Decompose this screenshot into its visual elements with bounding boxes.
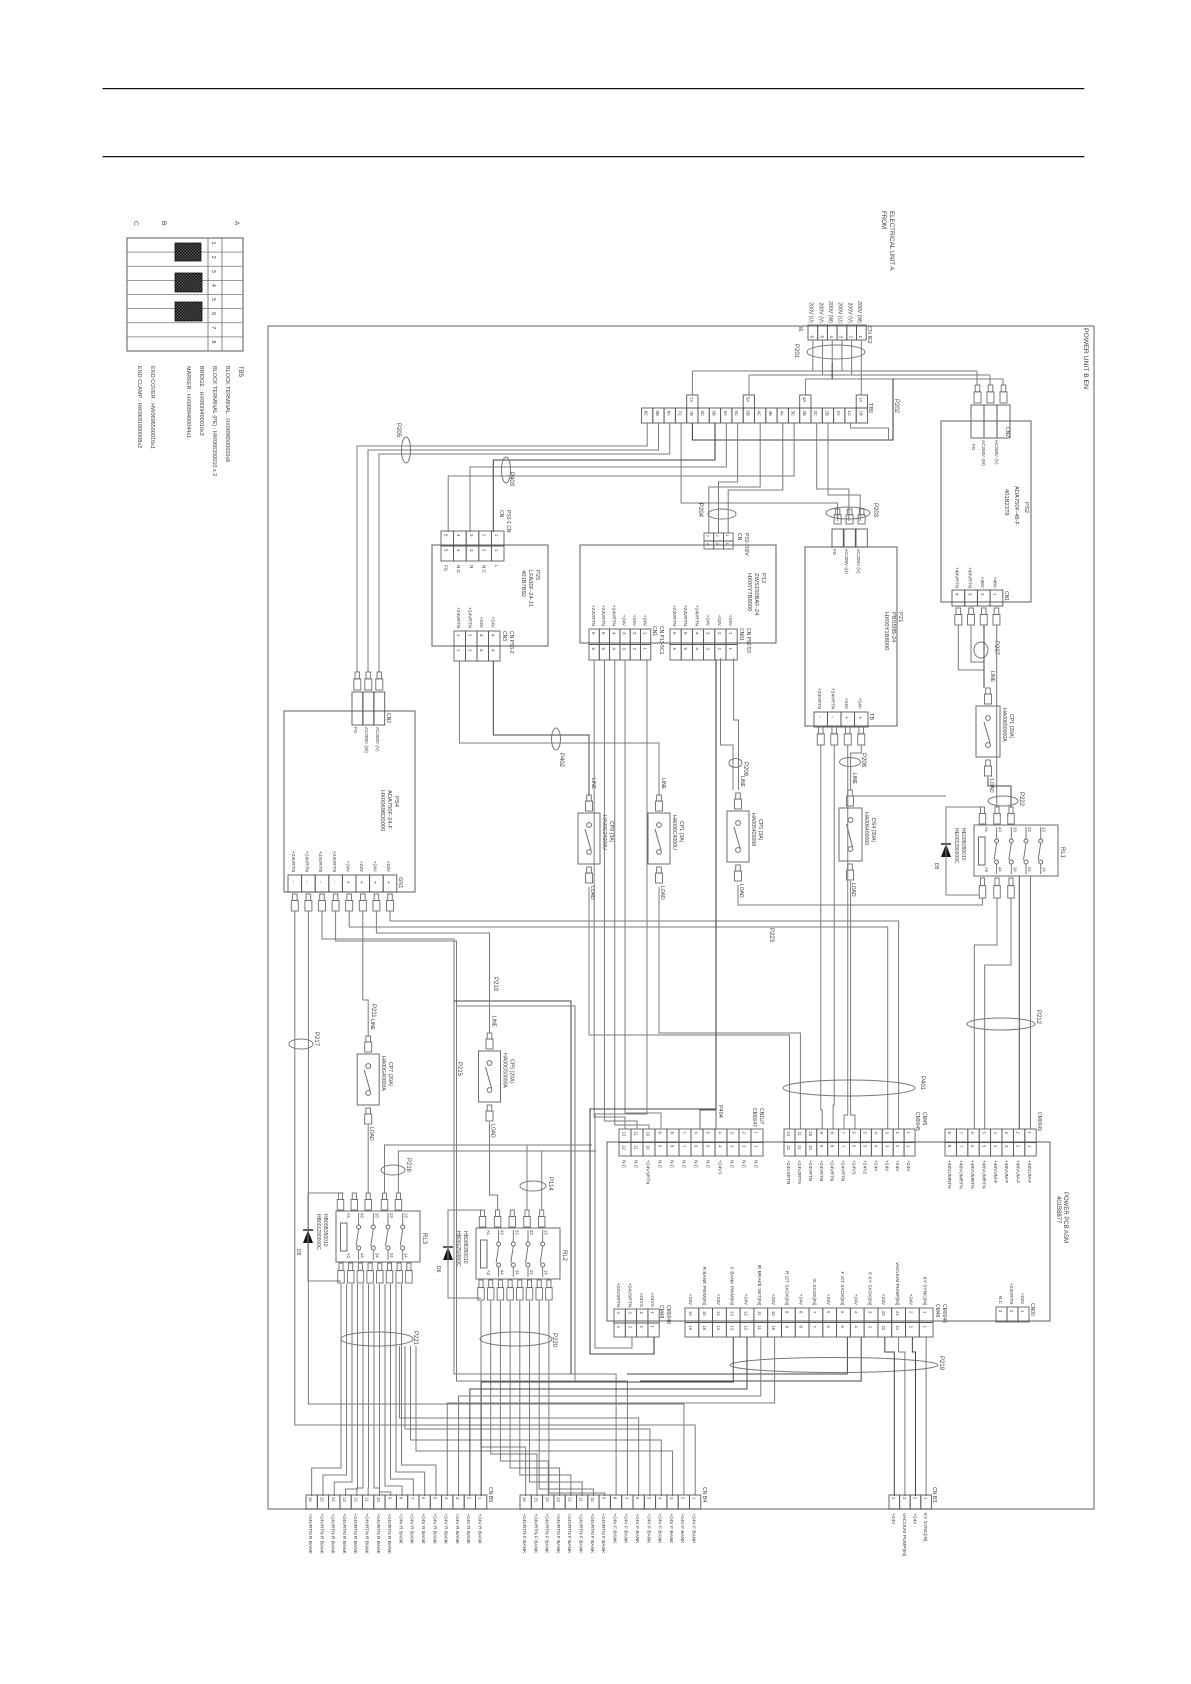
svg-text:9: 9 (657, 1145, 662, 1148)
svg-text:LINE: LINE (491, 1016, 497, 1028)
svg-text:+24V: +24V (883, 1160, 889, 1172)
svg-text:6: 6 (826, 1311, 831, 1314)
svg-text:+24VRTN: +24VRTN (610, 605, 616, 627)
svg-text:P217: P217 (313, 1032, 319, 1047)
svg-text:+24VRTN: +24VRTN (693, 605, 699, 627)
svg-text:8: 8 (669, 1145, 674, 1148)
svg-text:8: 8 (947, 1145, 952, 1148)
svg-text:2: 2 (481, 534, 486, 537)
svg-text:P219: P219 (938, 1356, 944, 1371)
svg-text:12: 12 (743, 1326, 748, 1331)
svg-text:8C: 8C (644, 411, 649, 417)
svg-text:33: 33 (1012, 827, 1017, 832)
svg-text:5: 5 (601, 648, 606, 651)
svg-text:+48VUM-F: +48VUM-F (992, 1160, 998, 1183)
svg-text:N.C: N.C (704, 1160, 710, 1169)
svg-text:14: 14 (331, 1497, 336, 1502)
svg-text:HA00G50000A: HA00G50000A (502, 1053, 508, 1088)
svg-text:P207: P207 (993, 641, 999, 656)
svg-text:HA006400000: HA006400000 (863, 812, 869, 845)
svg-text:+48V: +48V (992, 577, 998, 589)
svg-text:+24V R BANK: +24V R BANK (465, 1514, 471, 1545)
svg-text:-: - (317, 881, 323, 883)
svg-text:24: 24 (1027, 867, 1032, 872)
svg-text:+24VRTN: +24VRTN (818, 1160, 824, 1182)
svg-text:8: 8 (210, 340, 216, 343)
svg-text:15: 15 (320, 1497, 325, 1502)
svg-text:4: 4 (694, 648, 699, 651)
svg-text:+24VSRTN: +24VSRTN (627, 1283, 633, 1308)
svg-text:4: 4 (873, 1145, 878, 1148)
svg-text:1: 1 (650, 1312, 655, 1315)
svg-text:3A: 3A (802, 397, 807, 402)
svg-text:10: 10 (771, 1326, 776, 1331)
svg-text:6: 6 (852, 1132, 857, 1135)
svg-text:10: 10 (808, 1145, 813, 1150)
svg-text:+: + (344, 881, 350, 884)
svg-text:3: 3 (210, 270, 216, 273)
svg-text:+24VRTN: +24VRTN (455, 607, 461, 629)
svg-text:4: 4 (717, 1145, 722, 1148)
svg-text:+24V: +24V (385, 861, 391, 873)
svg-text:12: 12 (621, 1132, 626, 1137)
svg-text:7C: 7C (678, 411, 683, 417)
svg-text:8A: 8A (666, 411, 671, 416)
svg-text:5: 5 (444, 534, 449, 537)
svg-text:5: 5 (683, 632, 688, 635)
svg-text:CP1 (20A): CP1 (20A) (1008, 714, 1014, 738)
svg-text:P223: P223 (768, 928, 774, 943)
svg-text:CN: CN (736, 533, 742, 541)
svg-text:401B8877: 401B8877 (1055, 1196, 1061, 1224)
svg-text:R IZT SXOK[IN]: R IZT SXOK[IN] (784, 1271, 790, 1305)
svg-text:4: 4 (694, 632, 699, 635)
svg-text:P403: P403 (508, 472, 514, 487)
svg-text:+24V: +24V (908, 1294, 914, 1306)
svg-text:+24VRTN: +24VRTN (590, 605, 596, 627)
svg-text:P212: P212 (1035, 1010, 1041, 1025)
svg-text:P205: P205 (395, 423, 401, 438)
svg-text:3: 3 (455, 1497, 460, 1500)
svg-text:+24VRTN: +24VRTN (290, 851, 296, 873)
svg-text:8: 8 (798, 1326, 803, 1329)
svg-text:P401: P401 (919, 1076, 925, 1091)
svg-text:14: 14 (716, 1311, 721, 1316)
svg-text:LINE: LINE (851, 773, 857, 785)
svg-text:+48VRTN: +48VRTN (966, 567, 972, 589)
svg-text:4: 4 (491, 634, 496, 637)
svg-text:CM46: CM46 (934, 1304, 940, 1318)
svg-text:21: 21 (895, 1311, 900, 1316)
svg-text:P220: P220 (551, 1333, 557, 1348)
svg-text:2: 2 (1016, 1132, 1021, 1135)
svg-text:FG: FG (971, 444, 976, 451)
svg-text:9: 9 (819, 1132, 824, 1135)
svg-text:3: 3 (884, 1145, 889, 1148)
svg-text:5: 5 (444, 549, 449, 552)
svg-text:4: 4 (456, 549, 461, 552)
svg-text:+24VRTN F BANK: +24VRTN F BANK (589, 1514, 595, 1555)
svg-text:3: 3 (628, 1312, 633, 1315)
svg-text:+24V R BANK: +24V R BANK (409, 1514, 415, 1545)
svg-text:+24V: +24V (770, 1294, 776, 1306)
svg-text:+24V F BANK: +24V F BANK (679, 1514, 685, 1545)
svg-text:+24V: +24V (705, 615, 711, 627)
svg-text:+48VUMRTN: +48VUMRTN (980, 1160, 986, 1189)
svg-text:7: 7 (681, 1145, 686, 1148)
svg-text:+24VSRTN: +24VSRTN (644, 1160, 650, 1185)
svg-text:10: 10 (771, 1311, 776, 1316)
svg-text:+24V F BANK: +24V F BANK (634, 1514, 640, 1545)
svg-text:+24VRTN R BANK: +24VRTN R BANK (307, 1514, 313, 1555)
svg-text:3: 3 (469, 534, 474, 537)
svg-text:-: - (816, 716, 822, 718)
svg-text:P222: P222 (1018, 792, 1024, 807)
svg-text:11: 11 (633, 1132, 638, 1137)
svg-text:4: 4 (616, 1326, 621, 1329)
svg-text:34: 34 (1012, 867, 1017, 872)
svg-text:P211: P211 (370, 1004, 376, 1018)
svg-text:401B7B92: 401B7B92 (520, 570, 526, 597)
svg-text:1: 1 (993, 593, 998, 596)
svg-text:9: 9 (657, 1132, 662, 1135)
svg-text:1: 1 (923, 1497, 928, 1500)
svg-text:N.C: N.C (728, 1160, 734, 1169)
svg-text:3: 3 (479, 634, 484, 637)
svg-text:4: 4 (616, 1312, 621, 1315)
svg-text:+24V R BANK: +24V R BANK (420, 1514, 426, 1545)
svg-text:+48VUMRTN: +48VUMRTN (958, 1160, 964, 1189)
svg-text:6: 6 (852, 1145, 857, 1148)
svg-text:1: 1 (494, 549, 499, 552)
svg-text:34: 34 (514, 1270, 519, 1275)
svg-text:14: 14 (545, 1497, 550, 1502)
svg-text:4: 4 (993, 1145, 998, 1148)
svg-text:A1: A1 (984, 827, 989, 833)
svg-text:+24V: +24V (344, 861, 350, 873)
svg-text:CM0049: CM0049 (1036, 1112, 1042, 1131)
svg-text:4: 4 (854, 1311, 859, 1314)
svg-text:LINE: LINE (739, 776, 745, 788)
svg-text:HB001250000C: HB001250000C (455, 1231, 461, 1267)
svg-text:P21: P21 (897, 612, 903, 622)
svg-text:3: 3 (867, 1311, 872, 1314)
svg-text:P203: P203 (872, 503, 878, 518)
svg-text:14: 14 (404, 1253, 409, 1258)
svg-text:CN1: CN1 (1003, 591, 1009, 601)
svg-text:+24V2RTN: +24V2RTN (796, 1160, 802, 1184)
svg-text:5: 5 (210, 298, 216, 301)
svg-text:5A: 5A (745, 397, 750, 402)
svg-text:7: 7 (959, 1132, 964, 1135)
svg-text:AC200V (W): AC200V (W) (364, 727, 369, 753)
svg-text:N: N (469, 565, 474, 568)
svg-text:+24V: +24V (797, 1294, 803, 1306)
svg-text:HA00650000A: HA00650000A (1001, 708, 1007, 742)
svg-text:CN PS3-2: CN PS3-2 (508, 631, 514, 654)
svg-text:2: 2 (741, 1145, 746, 1148)
svg-text:CN61: CN61 (738, 628, 744, 641)
svg-text:3: 3 (729, 1145, 734, 1148)
svg-text:4: 4 (854, 1326, 859, 1329)
svg-text:+24V R BANK: +24V R BANK (431, 1514, 437, 1545)
svg-text:CM48: CM48 (658, 1305, 664, 1319)
svg-text:14: 14 (544, 1270, 549, 1275)
svg-text:+24VRTN R BANK: +24VRTN R BANK (330, 1514, 336, 1555)
svg-text:+24V: +24V (890, 1513, 896, 1525)
svg-text:HB00B350010: HB00B350010 (322, 1214, 328, 1247)
svg-text:3: 3 (706, 648, 711, 651)
svg-text:+24V: +24V (911, 1513, 917, 1525)
svg-text:3: 3 (967, 593, 972, 596)
svg-text:ADA750F-48-F: ADA750F-48-F (1013, 486, 1019, 525)
svg-text:2: 2 (909, 1311, 914, 1314)
svg-text:200V (U): 200V (U) (808, 302, 814, 323)
svg-text:CN B3: CN B3 (931, 1487, 937, 1502)
svg-text:P221: P221 (412, 1331, 418, 1346)
svg-text:3C: 3C (791, 411, 796, 417)
svg-text:12: 12 (786, 1132, 791, 1137)
svg-text:+: + (358, 881, 364, 884)
svg-text:2: 2 (466, 1497, 471, 1500)
svg-text:HB001290000C: HB001290000C (315, 1214, 321, 1250)
svg-text:3: 3 (622, 648, 627, 651)
svg-text:44: 44 (998, 867, 1003, 872)
svg-text:8: 8 (399, 1497, 404, 1500)
svg-text:2: 2 (895, 1145, 900, 1148)
svg-text:P208: P208 (860, 753, 866, 768)
svg-text:6: 6 (970, 1145, 975, 1148)
svg-text:3: 3 (1004, 1145, 1009, 1148)
svg-text:13: 13 (730, 1311, 735, 1316)
svg-text:6: 6 (635, 1497, 640, 1500)
svg-text:7: 7 (410, 1497, 415, 1500)
svg-text:8: 8 (613, 1497, 618, 1500)
svg-text:LINE: LINE (590, 778, 596, 790)
svg-text:+24V: +24V (880, 1294, 886, 1306)
svg-text:2: 2 (717, 648, 722, 651)
svg-text:AC200V (U): AC200V (U) (844, 549, 849, 574)
svg-text:BLOCK TERMINAL (PE) : HW066350: BLOCK TERMINAL (PE) : HW066350010 x 2 (211, 366, 217, 476)
svg-text:5: 5 (433, 1497, 438, 1500)
svg-text:+: + (385, 881, 391, 884)
svg-text:CM0045: CM0045 (914, 1112, 920, 1131)
svg-text:2: 2 (980, 593, 985, 596)
svg-text:+24V: +24V (631, 615, 637, 627)
svg-text:4: 4 (611, 632, 616, 635)
svg-text:12: 12 (786, 1145, 791, 1150)
svg-text:1: 1 (922, 1326, 927, 1329)
svg-text:9: 9 (601, 1497, 606, 1500)
svg-text:9: 9 (785, 1326, 790, 1329)
svg-text:P216: P216 (405, 1158, 411, 1173)
svg-text:D5: D5 (933, 863, 939, 870)
svg-text:+24VRTN F BANK: +24VRTN F BANK (521, 1514, 527, 1555)
svg-text:END COVER : HW0696500010x1: END COVER : HW0696500010x1 (149, 366, 155, 449)
svg-text:LINE: LINE (660, 778, 666, 790)
svg-text:13: 13 (544, 1230, 549, 1235)
svg-text:21: 21 (895, 1326, 900, 1331)
svg-text:2: 2 (848, 335, 853, 338)
svg-text:+24V F BANK: +24V F BANK (657, 1514, 663, 1545)
svg-text:6: 6 (693, 1145, 698, 1148)
svg-text:5: 5 (862, 1145, 867, 1148)
svg-text:2: 2 (895, 1132, 900, 1135)
svg-text:+24V: +24V (905, 1160, 911, 1172)
svg-text:+24V: +24V (372, 861, 378, 873)
svg-text:CM0047: CM0047 (751, 1108, 757, 1127)
svg-text:1: 1 (858, 335, 863, 338)
svg-text:+24V F BANK: +24V F BANK (691, 1514, 697, 1545)
svg-text:D5: D5 (295, 1249, 301, 1256)
svg-text:P215: P215 (456, 1062, 462, 1077)
svg-text:401B2379: 401B2379 (1003, 489, 1009, 515)
svg-text:5: 5 (819, 335, 824, 338)
svg-text:F BANK PWM[IN]: F BANK PWM[IN] (729, 1267, 735, 1305)
svg-text:+24VS: +24VS (716, 1160, 722, 1175)
svg-text:34: 34 (374, 1253, 379, 1258)
svg-text:1: 1 (650, 1326, 655, 1329)
svg-text:A1: A1 (486, 1230, 491, 1236)
svg-text:44: 44 (360, 1253, 365, 1258)
svg-text:+24VRTN: +24VRTN (600, 605, 606, 627)
svg-text:7: 7 (812, 1326, 817, 1329)
svg-text:+24V: +24V (715, 1294, 721, 1306)
svg-text:B: B (160, 221, 167, 225)
svg-text:+48VUM-F: +48VUM-F (1015, 1160, 1021, 1183)
svg-text:HA005420008: HA005420008 (750, 813, 756, 846)
svg-text:PS3-1 CN: PS3-1 CN (505, 510, 511, 533)
svg-text:12: 12 (743, 1311, 748, 1316)
svg-text:+24V: +24V (853, 1294, 859, 1306)
svg-text:FG: FG (832, 549, 837, 556)
svg-text:HE00B350010: HE00B350010 (960, 828, 966, 861)
svg-text:N.C: N.C (481, 565, 486, 574)
svg-text:-: - (331, 881, 337, 883)
svg-text:LOAD: LOAD (490, 1124, 496, 1138)
svg-text:POWER UNIT B EN: POWER UNIT B EN (1082, 328, 1089, 389)
svg-text:LINE: LINE (989, 671, 995, 683)
svg-text:14: 14 (716, 1326, 721, 1331)
svg-text:24: 24 (389, 1253, 394, 1258)
svg-text:7: 7 (841, 1145, 846, 1148)
svg-text:1: 1 (725, 535, 730, 538)
svg-text:15: 15 (534, 1497, 539, 1502)
svg-text:6: 6 (672, 648, 677, 651)
svg-text:4: 4 (955, 593, 960, 596)
svg-text:3: 3 (867, 1326, 872, 1329)
svg-text:ADA750F-24-F: ADA750F-24-F (386, 790, 392, 829)
svg-text:CM0048: CM0048 (665, 1305, 671, 1324)
svg-text:+24VRTN R BANK: +24VRTN R BANK (352, 1514, 358, 1555)
svg-text:1: 1 (906, 1132, 911, 1135)
svg-text:+24V R BANK: +24V R BANK (477, 1514, 483, 1545)
svg-text:+24V: +24V (490, 617, 496, 629)
svg-text:3: 3 (902, 1497, 907, 1500)
svg-text:5: 5 (601, 632, 606, 635)
svg-text:IR BRAKE SET[IN]: IR BRAKE SET[IN] (756, 1264, 762, 1305)
svg-text:44: 44 (500, 1270, 505, 1275)
svg-text:+24V: +24V (1019, 1293, 1025, 1305)
svg-text:4C: 4C (757, 411, 762, 417)
svg-text:200V (W): 200V (W) (827, 301, 833, 323)
svg-text:6C: 6C (700, 411, 705, 417)
svg-text:+24VRTN F BANK: +24VRTN F BANK (544, 1514, 550, 1555)
svg-text:15: 15 (702, 1326, 707, 1331)
svg-text:5: 5 (705, 1132, 710, 1135)
svg-text:1: 1 (642, 632, 647, 635)
svg-text:+24VRTN F BANK: +24VRTN F BANK (532, 1514, 538, 1555)
svg-text:HA006C4000U: HA006C4000U (671, 815, 677, 850)
svg-text:+24V: +24V (478, 617, 484, 629)
svg-text:N.C: N.C (752, 1160, 758, 1169)
svg-text:+24V: +24V (843, 698, 849, 710)
svg-text:+24VRTN R BANK: +24VRTN R BANK (386, 1514, 392, 1555)
svg-text:CN: CN (498, 510, 504, 518)
svg-text:PBS50B-24: PBS50B-24 (890, 612, 896, 643)
svg-text:200V (V): 200V (V) (846, 303, 852, 324)
svg-text:+24VRTN F BANK: +24VRTN F BANK (578, 1514, 584, 1555)
svg-text:N.C: N.C (692, 1160, 698, 1169)
svg-text:BRIDGE : HX0699400010x3: BRIDGE : HX0699400010x3 (198, 366, 204, 436)
svg-text:200V (W): 200V (W) (856, 301, 862, 323)
svg-text:4: 4 (611, 648, 616, 651)
svg-text:1: 1 (456, 649, 461, 652)
svg-text:+24VRTN: +24VRTN (816, 688, 822, 710)
svg-text:5: 5 (647, 1497, 652, 1500)
svg-text:13: 13 (730, 1326, 735, 1331)
svg-text:8: 8 (830, 1145, 835, 1148)
svg-text:N.C: N.C (456, 565, 461, 574)
svg-text:7: 7 (959, 1145, 964, 1148)
svg-text:5B: 5B (745, 411, 750, 416)
svg-text:CN3: CN3 (501, 631, 507, 641)
svg-text:-: - (290, 881, 296, 883)
svg-text:10: 10 (808, 1132, 813, 1137)
svg-text:+24VRTN R BANK: +24VRTN R BANK (341, 1514, 347, 1555)
svg-text:4: 4 (456, 534, 461, 537)
svg-text:22: 22 (881, 1326, 886, 1331)
svg-text:11: 11 (757, 1311, 762, 1316)
svg-text:3B: 3B (802, 411, 807, 416)
svg-text:P202: P202 (893, 399, 899, 414)
svg-text:N.C: N.C (620, 1160, 626, 1169)
svg-text:A2: A2 (984, 867, 989, 873)
svg-text:CN P13-5C1: CN P13-5C1 (658, 626, 664, 655)
svg-text:-: - (830, 716, 836, 718)
svg-text:6: 6 (826, 1326, 831, 1329)
svg-text:16: 16 (308, 1497, 313, 1502)
svg-text:CP1 (3A): CP1 (3A) (678, 821, 684, 843)
svg-text:1: 1 (753, 1145, 758, 1148)
svg-text:P114: P114 (547, 1177, 553, 1191)
svg-text:2: 2 (632, 648, 637, 651)
svg-text:3: 3 (469, 549, 474, 552)
svg-text:23: 23 (529, 1230, 534, 1235)
svg-text:P210: P210 (492, 977, 498, 992)
svg-text:HX00696D0000: HX00696D0000 (379, 790, 385, 831)
svg-text:8B: 8B (655, 411, 660, 416)
svg-text:P209: P209 (742, 762, 748, 777)
svg-text:6: 6 (210, 312, 216, 315)
svg-text:1: 1 (478, 1497, 483, 1500)
svg-text:+24VRTN: +24VRTN (467, 607, 473, 629)
svg-text:P201: P201 (793, 344, 799, 359)
svg-text:+48VUM-F: +48VUM-F (1026, 1160, 1032, 1183)
svg-text:2: 2 (639, 1326, 644, 1329)
svg-text:+24VRTN R BANK: +24VRTN R BANK (318, 1514, 324, 1555)
svg-text:HA00G40000A: HA00G40000A (380, 1056, 386, 1091)
